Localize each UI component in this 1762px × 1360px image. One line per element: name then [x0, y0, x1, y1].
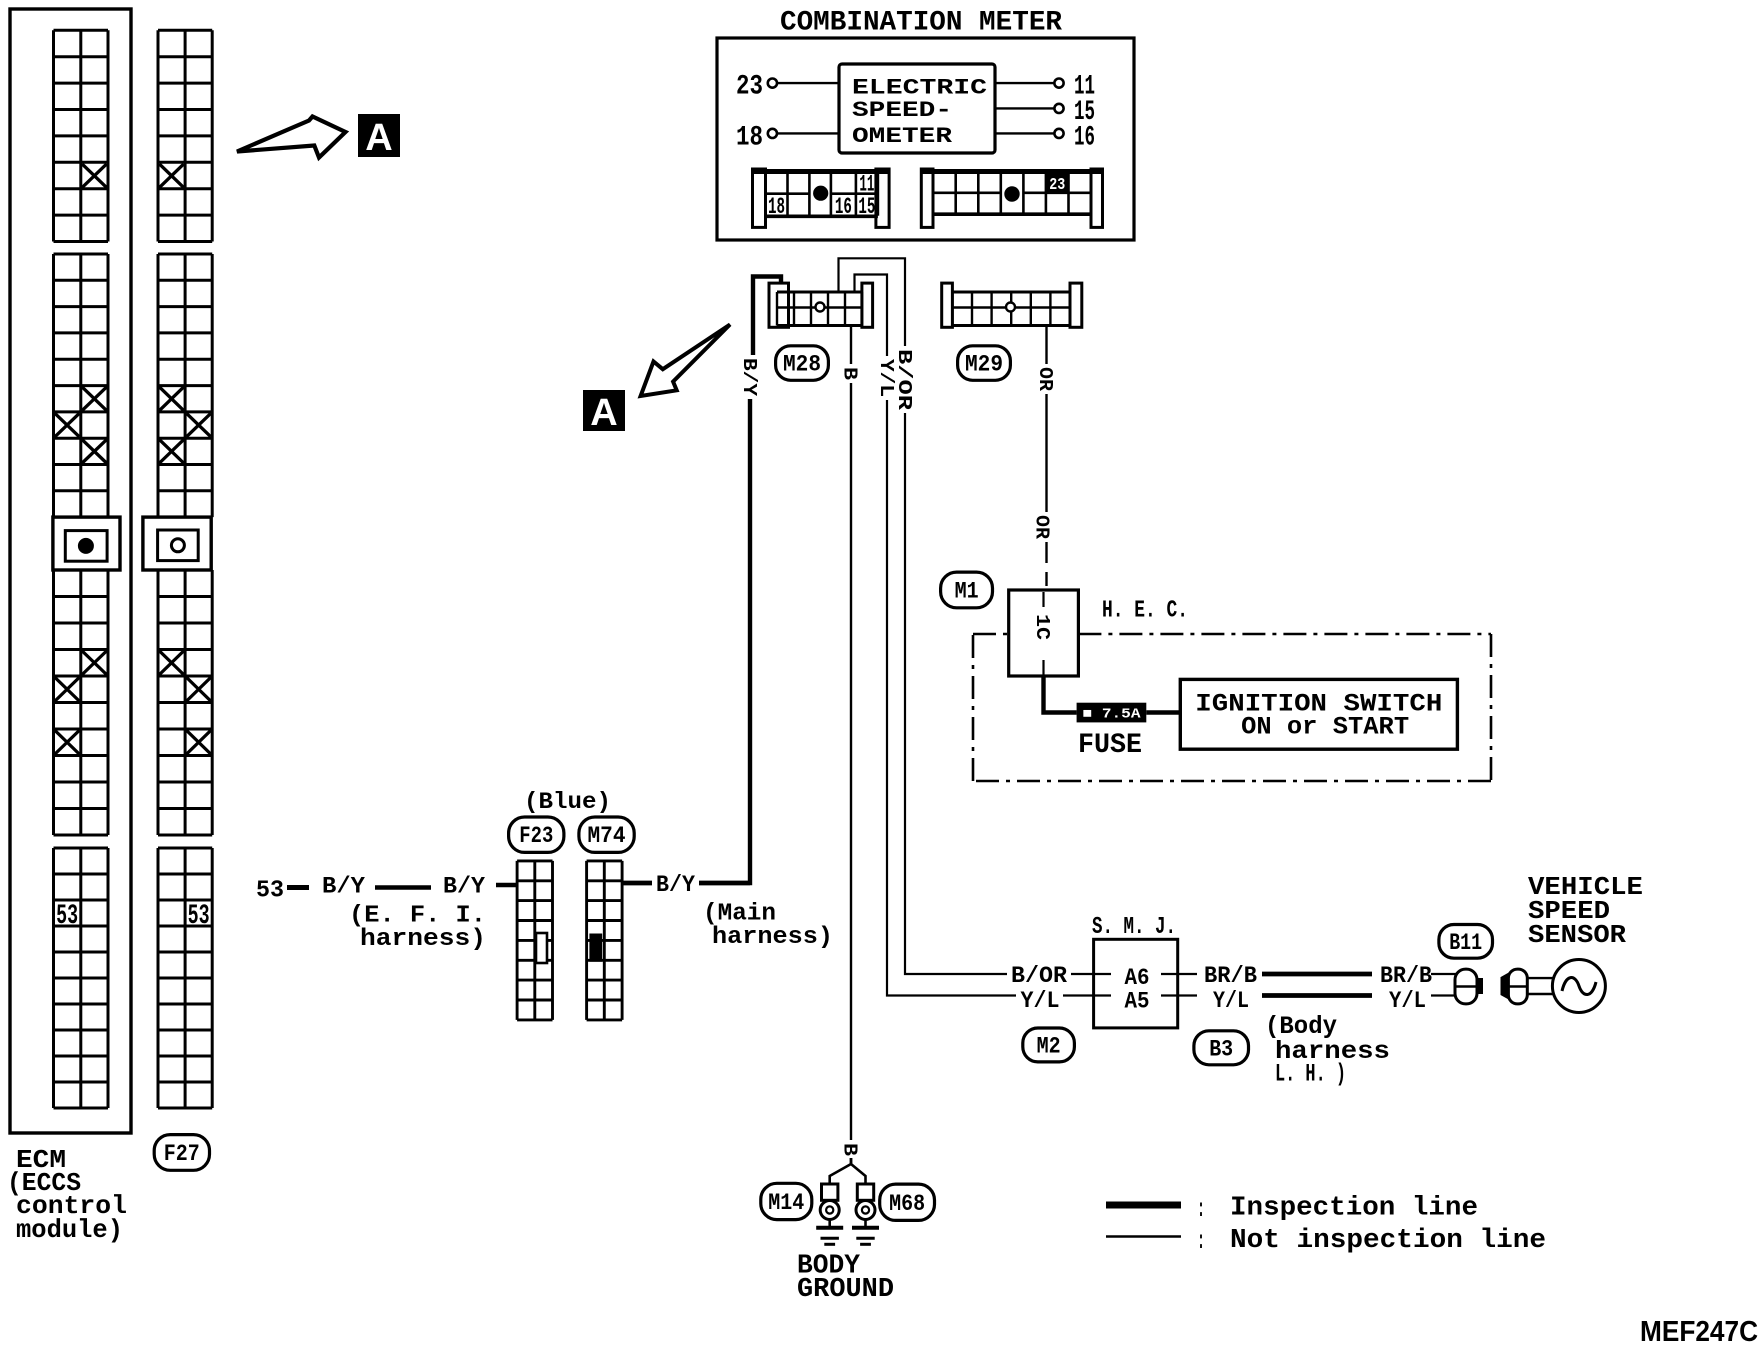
connector label M1	[941, 572, 993, 608]
H.E.C. enclosure (dash-dot)	[973, 633, 1009, 636]
svg-text:16: 16	[1074, 123, 1095, 154]
svg-text::: :	[1197, 1227, 1205, 1256]
svg-text:1C: 1C	[1031, 614, 1053, 640]
S.M.J. box	[1094, 939, 1178, 1028]
svg-text:A5: A5	[1125, 989, 1150, 1015]
connector label 1C	[1034, 611, 1053, 643]
legend not-inspection line sample	[1106, 1235, 1181, 1238]
svg-text:53: 53	[256, 878, 284, 905]
svg-text:GROUND: GROUND	[797, 1274, 894, 1304]
svg-text:B/Y: B/Y	[656, 872, 696, 899]
svg-text:OMETER: OMETER	[852, 124, 953, 149]
svg-text:A: A	[590, 392, 617, 434]
wire 1C to fuse	[1044, 676, 1077, 713]
wire B/OR jumper over M28	[839, 258, 1112, 974]
svg-text:SPEED-: SPEED-	[852, 98, 952, 123]
ECM connector outer box	[10, 9, 131, 1133]
ground wire split	[830, 1158, 851, 1185]
arrow pointing to detail A (middle)	[641, 325, 730, 397]
fuse (7.5A)	[1077, 703, 1147, 723]
connector label M14	[761, 1183, 812, 1219]
wire B from M28 to body ground	[850, 326, 852, 1159]
vehicle speed sensor (AC generator symbol)	[1552, 960, 1605, 1013]
svg-text:23: 23	[1049, 176, 1065, 195]
connector label M29	[958, 346, 1011, 381]
svg-text:M29: M29	[965, 352, 1003, 378]
wire label OR	[1037, 364, 1056, 394]
svg-text:F27: F27	[164, 1141, 200, 1167]
pin 11	[995, 82, 1054, 84]
svg-text:(Blue): (Blue)	[524, 789, 611, 816]
svg-text:COMBINATION METER: COMBINATION METER	[780, 8, 1062, 39]
wire M74 to main harness (B/Y)	[622, 881, 750, 885]
pin 16	[995, 132, 1054, 134]
svg-text:A: A	[365, 117, 392, 159]
wire A5 to Y/L	[1161, 994, 1197, 996]
connector label M2	[1023, 1028, 1075, 1062]
wire Y/L jumper over M28	[855, 275, 1112, 996]
connector M28	[769, 283, 789, 327]
svg-text:18: 18	[768, 194, 785, 220]
wire pin18 to speedometer	[777, 132, 839, 134]
wire label B/Y	[741, 355, 760, 399]
F23 slot marker (open)	[536, 933, 547, 963]
wire pin23 to speedometer	[777, 82, 839, 84]
wire label B	[842, 364, 861, 383]
svg-text:53: 53	[188, 901, 210, 932]
M74 slot marker (filled)	[589, 934, 602, 962]
svg-text:B: B	[839, 367, 861, 380]
svg-text:Inspection line: Inspection line	[1230, 1193, 1478, 1223]
svg-text:B3: B3	[1209, 1036, 1233, 1062]
svg-text:ON or START: ON or START	[1241, 713, 1409, 742]
svg-text:L. H. ): L. H. )	[1275, 1060, 1346, 1089]
ECM right strip (F27) grid	[157, 30, 160, 241]
ground terminal M14	[822, 1184, 838, 1200]
inspection line BR/B	[1262, 972, 1372, 977]
arrow pointing to detail A (top)	[237, 117, 346, 158]
wire label B (2)	[842, 1140, 861, 1159]
svg-text:16: 16	[835, 194, 852, 220]
wire B/Y from meter to M28 tab	[753, 277, 781, 361]
svg-text:53: 53	[56, 901, 78, 932]
meter connector view (left, pins 18/16/15/11)	[753, 169, 766, 227]
svg-text:B/Y: B/Y	[322, 873, 366, 900]
svg-text:OR: OR	[1034, 367, 1056, 391]
svg-text:BR/B: BR/B	[1380, 963, 1432, 990]
svg-text:B/Y: B/Y	[738, 358, 760, 396]
sensor-side connector half	[1501, 971, 1512, 1001]
connector label M68	[880, 1184, 935, 1220]
connector label M28	[776, 346, 829, 381]
ECM right strip middle marker (open circle)	[171, 539, 184, 552]
ECM left connector strip grid	[52, 30, 55, 241]
ignition switch box	[1180, 679, 1457, 749]
connector label M74	[579, 817, 634, 852]
highlighted pin 23 cell	[1046, 173, 1069, 193]
svg-text:■ 7.5A: ■ 7.5A	[1083, 707, 1142, 723]
svg-text:M74: M74	[588, 823, 626, 849]
svg-text:A6: A6	[1125, 965, 1150, 991]
electric speedometer unit U1	[839, 64, 995, 153]
ground terminal M68	[857, 1184, 873, 1200]
svg-text:Y/L: Y/L	[1021, 988, 1060, 1015]
connector F27 oval	[154, 1135, 209, 1171]
meter connector view (right, pin 23)	[921, 169, 933, 227]
svg-text:18: 18	[736, 123, 763, 154]
wire label Y/L	[878, 356, 897, 400]
legend inspection line sample	[1106, 1202, 1181, 1209]
svg-text:M28: M28	[783, 352, 821, 378]
connector label B3	[1194, 1031, 1249, 1065]
svg-text:B11: B11	[1449, 930, 1482, 956]
svg-text:H. E. C.: H. E. C.	[1102, 598, 1188, 625]
connector M74 strip	[585, 861, 588, 1020]
svg-text:module): module)	[16, 1216, 123, 1245]
svg-text:OR: OR	[1030, 515, 1052, 539]
svg-text:M68: M68	[889, 1191, 925, 1217]
fusible connector 1C box	[1009, 590, 1079, 676]
svg-text:FUSE: FUSE	[1078, 730, 1142, 761]
wire label OR (2)	[1033, 512, 1052, 542]
svg-text:MEF247C: MEF247C	[1640, 1316, 1758, 1348]
svg-text:SENSOR: SENSOR	[1528, 921, 1627, 950]
svg-text:B/Y: B/Y	[443, 873, 486, 900]
wire OR from M29	[1045, 326, 1047, 564]
svg-text:M1: M1	[955, 579, 979, 605]
svg-text:harness): harness)	[712, 924, 833, 951]
svg-text:ELECTRIC: ELECTRIC	[852, 76, 987, 101]
svg-text::: :	[1197, 1195, 1205, 1224]
svg-text:23: 23	[736, 72, 763, 103]
svg-text:S. M. J.: S. M. J.	[1092, 914, 1176, 941]
connector F23 strip	[516, 861, 519, 1020]
wire label B/OR	[1007, 962, 1071, 986]
svg-text:M14: M14	[768, 1190, 804, 1216]
svg-text:B/OR: B/OR	[893, 349, 915, 410]
detail marker A (middle)	[583, 390, 625, 431]
combination meter box	[717, 38, 1134, 240]
svg-text:Not inspection line: Not inspection line	[1230, 1225, 1546, 1255]
svg-text:F23: F23	[519, 823, 553, 849]
connector M29	[942, 283, 953, 327]
svg-text:15: 15	[858, 194, 875, 220]
wire label B/OR	[896, 346, 915, 413]
svg-text:B/OR: B/OR	[1011, 963, 1068, 990]
svg-text:B: B	[839, 1143, 861, 1156]
wire label Y/L	[1016, 988, 1063, 1012]
wire fuse to ignition switch	[1146, 710, 1180, 714]
wire B/Y vertical to main harness junction	[622, 360, 750, 883]
connector label B11	[1439, 925, 1493, 959]
ECM left strip middle marker (filled dot)	[78, 538, 94, 554]
wire A6 to BR/B	[1161, 973, 1197, 975]
harness-side connector half	[1455, 969, 1477, 1004]
svg-text:Y/L: Y/L	[1213, 988, 1249, 1015]
inspection line Y/L	[1262, 993, 1372, 998]
pin 15	[995, 107, 1054, 109]
connector label F23	[509, 817, 564, 852]
svg-text:M2: M2	[1037, 1033, 1061, 1059]
detail marker A (top)	[358, 114, 400, 157]
svg-text:Y/L: Y/L	[1389, 988, 1426, 1015]
svg-text:BR/B: BR/B	[1204, 963, 1257, 990]
svg-text:harness): harness)	[360, 926, 486, 953]
